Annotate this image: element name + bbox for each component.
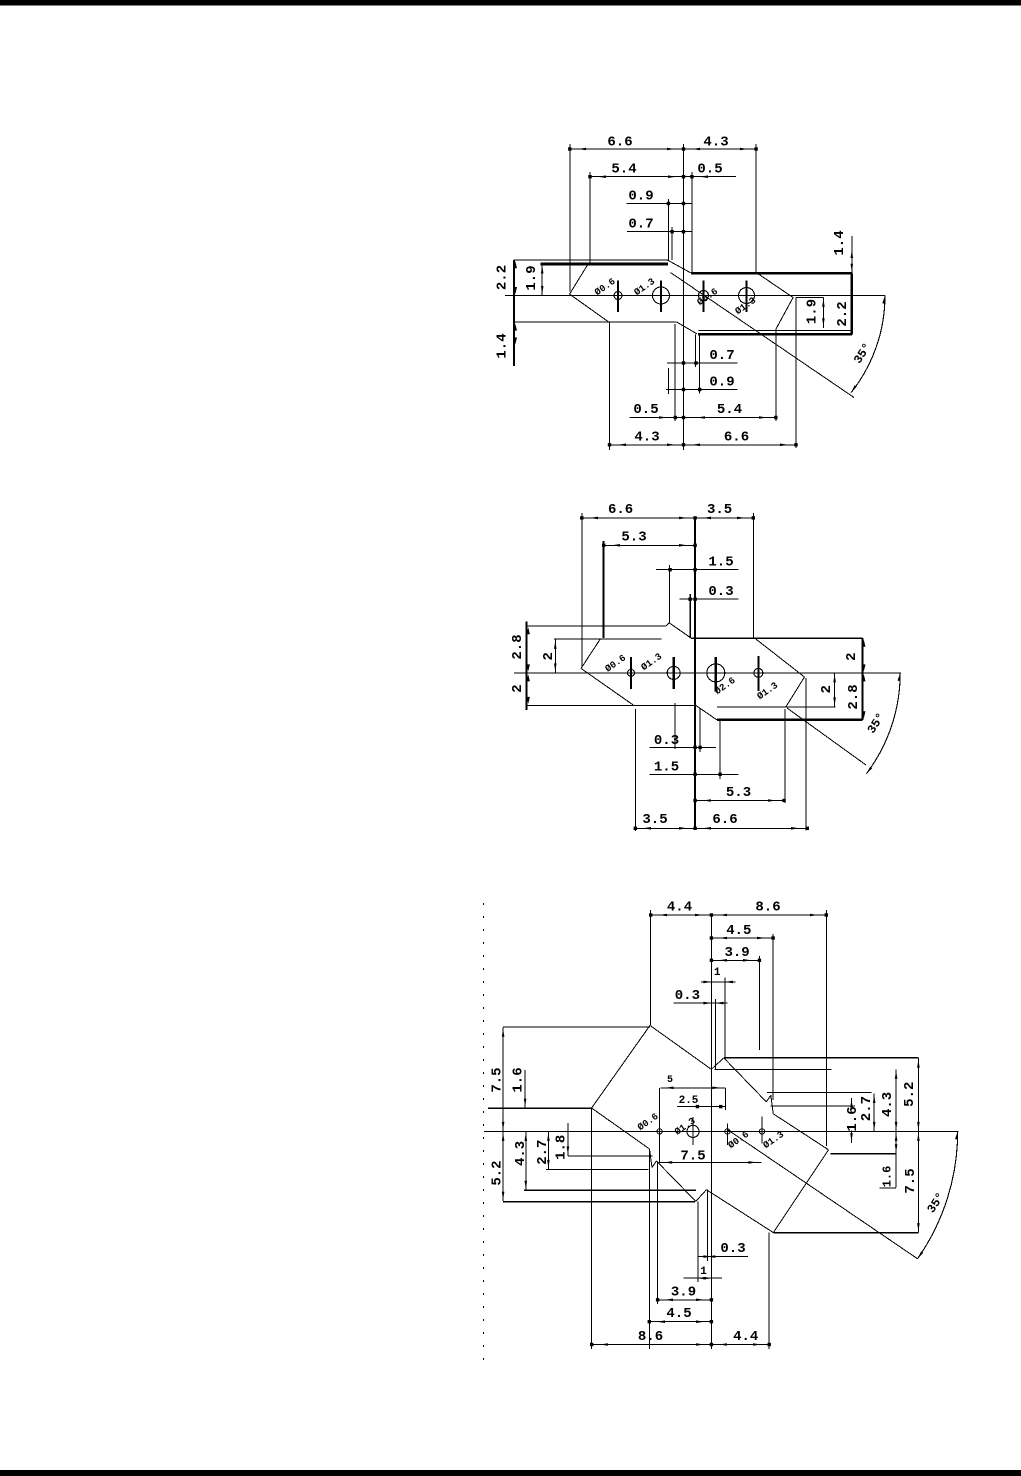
svg-text:0.9: 0.9 — [628, 189, 653, 205]
svg-text:4.3: 4.3 — [703, 135, 728, 151]
svg-text:8.6: 8.6 — [755, 900, 780, 916]
drawing 3 35deg leader line — [728, 1130, 918, 1259]
drawing 2 top extension lines — [581, 513, 583, 667]
svg-text:5.3: 5.3 — [726, 785, 751, 801]
svg-text:0.3: 0.3 — [654, 733, 679, 749]
svg-text:1.9: 1.9 — [524, 265, 540, 290]
svg-text:4.3: 4.3 — [634, 430, 659, 446]
svg-text:5: 5 — [667, 1075, 673, 1086]
drawing 3 holes — [657, 1129, 662, 1134]
svg-text:7.5: 7.5 — [680, 1149, 705, 1165]
svg-text:1.5: 1.5 — [654, 760, 679, 776]
svg-text:6.6: 6.6 — [724, 430, 749, 446]
drawing 3 top extension lines — [650, 910, 652, 1025]
drawing 2 centerlines — [514, 672, 901, 674]
drawing 3 rotated square outline — [592, 1025, 650, 1108]
drawing 2 bottom extension lines — [634, 709, 636, 831]
svg-text:0.7: 0.7 — [709, 348, 734, 364]
svg-text:2.2: 2.2 — [495, 265, 511, 290]
svg-text:5.4: 5.4 — [717, 402, 742, 418]
svg-text:2: 2 — [844, 652, 860, 660]
drawing 1 bottom extension lines — [609, 322, 611, 450]
svg-text:0.5: 0.5 — [697, 162, 722, 178]
svg-text:2: 2 — [819, 685, 835, 693]
svg-text:1.9: 1.9 — [805, 299, 821, 324]
drawing 3 horizontal arm edges — [724, 1057, 919, 1059]
drawing 3 bottom extension lines — [591, 1108, 593, 1349]
drawing 3 centerlines — [484, 1130, 959, 1132]
top black bar — [0, 0, 1021, 6]
drawing 1 top extension lines — [569, 144, 571, 292]
svg-text:0.3: 0.3 — [720, 1241, 745, 1257]
drawing 2 35deg angular dimension arc — [867, 673, 901, 774]
drawing 1 rotated bar — [570, 264, 589, 294]
svg-text:1.8: 1.8 — [553, 1135, 569, 1160]
drawing 2 rotated bar — [581, 639, 601, 669]
drawing 1 35deg leader line — [671, 273, 855, 398]
svg-text:7.5: 7.5 — [903, 1168, 919, 1193]
drawing 2 35deg leader line — [787, 708, 866, 765]
svg-text:6.6: 6.6 — [607, 135, 632, 151]
svg-text:1.4: 1.4 — [495, 333, 511, 358]
svg-text:5.2: 5.2 — [902, 1082, 918, 1107]
svg-text:4.3: 4.3 — [513, 1141, 529, 1166]
svg-text:0.3: 0.3 — [675, 988, 700, 1004]
svg-text:1.5: 1.5 — [708, 555, 733, 571]
svg-text:0.3: 0.3 — [708, 584, 733, 600]
svg-text:2.7: 2.7 — [535, 1140, 551, 1165]
drawing 2 right dimensions — [862, 640, 865, 647]
svg-text:4.5: 4.5 — [726, 923, 751, 939]
svg-text:4.3: 4.3 — [880, 1092, 896, 1117]
drawing 2 holes — [628, 669, 635, 676]
drawing 3 right dimensions — [851, 1098, 853, 1143]
drawing 2 bottom dimensions — [650, 746, 716, 748]
svg-text:3.5: 3.5 — [707, 502, 732, 518]
svg-text:0.9: 0.9 — [709, 375, 734, 391]
drawing 2 left dimensions — [527, 627, 530, 634]
drawing 3 left dimensions — [502, 1027, 504, 1201]
svg-text:5.2: 5.2 — [490, 1160, 506, 1185]
svg-text:0.7: 0.7 — [628, 217, 653, 233]
drawing 1 holes — [614, 292, 622, 300]
drawing 1 left dimensions — [514, 261, 517, 268]
svg-text:5.3: 5.3 — [621, 530, 646, 546]
svg-text:4.4: 4.4 — [667, 900, 692, 916]
drawing 3 35deg angular dimension arc — [918, 1131, 958, 1258]
svg-text:4.4: 4.4 — [733, 1329, 758, 1345]
drawing 1 bottom dimensions — [667, 362, 738, 364]
svg-text:2: 2 — [510, 684, 526, 692]
svg-text:5.4: 5.4 — [611, 162, 636, 178]
svg-text:1.6: 1.6 — [881, 1166, 895, 1188]
drawing 3 bottom dimensions — [698, 1256, 749, 1258]
svg-text:1: 1 — [714, 967, 721, 979]
svg-text:2.2: 2.2 — [835, 301, 851, 326]
drawing 1 centerlines — [505, 295, 885, 297]
svg-text:2.8: 2.8 — [846, 684, 862, 709]
svg-text:7.5: 7.5 — [490, 1067, 506, 1092]
svg-text:4.5: 4.5 — [666, 1306, 691, 1322]
svg-text:8.6: 8.6 — [638, 1329, 663, 1345]
drawing 3 inner hole dimensions — [660, 1087, 725, 1089]
svg-text:3.5: 3.5 — [642, 812, 667, 828]
bottom black bar — [0, 1470, 1021, 1476]
svg-text:0.5: 0.5 — [633, 402, 658, 418]
drawing 2 part outline — [526, 622, 528, 711]
svg-text:3.9: 3.9 — [671, 1285, 696, 1301]
drawing 2 top dimensions — [582, 517, 754, 519]
drawing 1 35deg angular dimension arc — [851, 296, 885, 393]
svg-text:6.6: 6.6 — [608, 502, 633, 518]
svg-text:6.6: 6.6 — [712, 812, 737, 828]
drawing 1 right dimensions — [851, 236, 853, 273]
drawing 3 phantom border line — [483, 903, 485, 1360]
drawing 3 top dimensions — [651, 914, 827, 916]
svg-text:1.6: 1.6 — [511, 1067, 527, 1092]
svg-text:2: 2 — [541, 652, 557, 660]
svg-text:1.4: 1.4 — [832, 230, 848, 255]
svg-text:3.9: 3.9 — [724, 945, 749, 961]
svg-text:2.8: 2.8 — [510, 634, 526, 659]
svg-text:2.7: 2.7 — [859, 1096, 875, 1121]
svg-text:1: 1 — [700, 1266, 707, 1278]
svg-text:2.5: 2.5 — [679, 1095, 699, 1107]
drawing 1 part outline — [513, 260, 515, 366]
drawing 1 top dimensions — [570, 148, 756, 150]
